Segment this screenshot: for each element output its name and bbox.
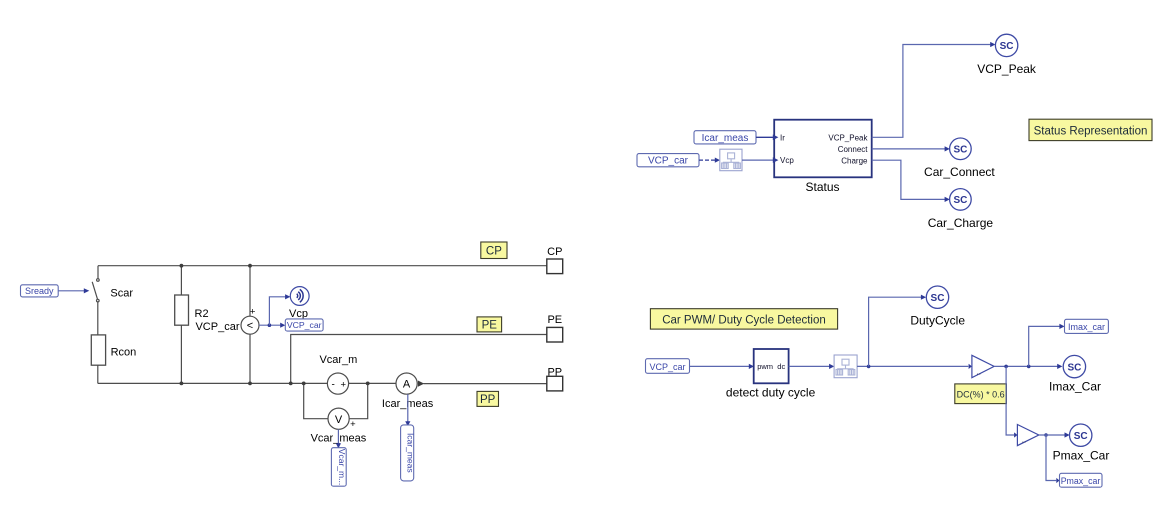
svg-text:Scar: Scar <box>110 288 133 300</box>
wire gain1 to Imax_Car scope <box>994 365 1059 367</box>
wire voltmeter loop <box>304 383 368 418</box>
converter block top <box>720 149 742 171</box>
node gain1 out a <box>1004 365 1008 369</box>
wire Sready arrow <box>58 290 84 292</box>
svg-text:SC: SC <box>931 293 945 304</box>
goto tag VCP_car small <box>285 319 323 331</box>
svg-text:Status Representation: Status Representation <box>1034 125 1148 137</box>
svg-text:..: .. <box>977 367 981 376</box>
wire A to goto tag <box>407 394 409 422</box>
wire PE branch <box>291 335 547 384</box>
node bottom VCPcar <box>248 382 252 386</box>
svg-text:VCP_car: VCP_car <box>195 321 239 333</box>
junction dots black <box>180 264 425 387</box>
wire up to Imax_car tag <box>1029 326 1061 366</box>
goto tag Pmax_car <box>1060 473 1103 487</box>
block detect duty cycle <box>754 349 789 383</box>
LEFT-CIRCUIT <box>91 266 546 430</box>
from tag Sready <box>21 285 59 297</box>
svg-text:+: + <box>341 379 347 390</box>
svg-text:Vcar_m: Vcar_m <box>319 354 357 366</box>
arrow after ammeter <box>418 381 424 387</box>
wire Charge out <box>872 160 947 199</box>
node Vloop left <box>302 382 306 386</box>
from tag Icar_meas <box>694 131 756 144</box>
svg-text:+: + <box>350 419 356 430</box>
wire V to goto tag <box>337 429 339 444</box>
voltmeter V <box>328 408 349 429</box>
wire switch drop <box>97 266 99 279</box>
svg-text:SC: SC <box>1067 362 1081 373</box>
wire Icar_meas to Status <box>756 136 773 138</box>
goto tag Vcar_m vertical <box>331 448 346 487</box>
wire Connect out <box>872 148 947 150</box>
svg-text:Status: Status <box>805 180 839 194</box>
wire Rcon to bottom bus <box>97 365 99 383</box>
wire VCP_Peak out <box>872 45 992 138</box>
gain 1 <box>969 364 972 369</box>
yellow annotation Status Representation <box>1029 119 1152 140</box>
converter block bottom <box>834 355 857 378</box>
wire R2 branch <box>180 266 182 384</box>
svg-text:VCP_car: VCP_car <box>649 362 685 372</box>
scope Imax_Car <box>1063 355 1085 377</box>
wire VCP_car to converter <box>699 159 716 161</box>
svg-text:Vcar_m...: Vcar_m... <box>337 449 347 485</box>
wire down to Pmax_car tag <box>1046 435 1056 481</box>
resistor R2 <box>175 295 189 325</box>
subsystem Status <box>774 120 872 178</box>
node PE <box>289 382 293 386</box>
wire up to Vcp scope <box>269 297 285 325</box>
svg-text:Charge: Charge <box>841 156 868 165</box>
port PE <box>547 327 563 342</box>
svg-text:VCP_car: VCP_car <box>287 320 322 330</box>
svg-text:Car_Charge: Car_Charge <box>928 216 994 230</box>
svg-text:<: < <box>247 320 253 332</box>
svg-text:Icar_meas: Icar_meas <box>702 133 749 144</box>
wire comparator to tag <box>259 324 282 326</box>
node top R2 <box>180 264 184 268</box>
source VCP_car (circle with <) <box>241 316 259 334</box>
wire up to DutyCycle <box>869 297 923 366</box>
svg-text:Pmax_Car: Pmax_Car <box>1053 448 1110 462</box>
svg-text:DutyCycle: DutyCycle <box>910 313 965 327</box>
yellow annotation Car PWM <box>650 309 837 329</box>
wire converter to Status <box>742 159 773 161</box>
node Vloop right <box>366 382 370 386</box>
svg-text:PP: PP <box>547 366 562 378</box>
svg-text:+: + <box>250 307 256 318</box>
wire detect to converter <box>789 365 831 367</box>
symbols text <box>247 307 411 430</box>
svg-text:Imax_Car: Imax_Car <box>1049 380 1101 394</box>
svg-text:Sready: Sready <box>25 286 54 296</box>
goto tag Imax_car <box>1065 319 1109 333</box>
svg-text:Ir: Ir <box>780 133 785 142</box>
svg-text:Imax_car: Imax_car <box>1068 322 1105 332</box>
BOTTOM-RIGHT PWM SECTION <box>646 286 1110 487</box>
svg-text:Connect: Connect <box>838 145 869 154</box>
svg-text:VCP_Peak: VCP_Peak <box>977 62 1037 76</box>
scope Pmax_Car <box>1070 424 1092 446</box>
svg-text:VCP_Peak: VCP_Peak <box>828 133 868 142</box>
wire VCP_car to detect <box>690 365 751 367</box>
svg-text:-: - <box>332 379 335 390</box>
ammeter A <box>396 373 417 394</box>
wire gain2 to Pmax_Car scope <box>1039 434 1066 436</box>
svg-text:Car_Connect: Car_Connect <box>924 165 995 179</box>
wire bottom bus <box>98 382 396 384</box>
svg-text:Rcon: Rcon <box>111 346 137 358</box>
yellow annotation DC <box>955 384 1007 404</box>
svg-text:CP: CP <box>547 246 562 258</box>
resistor Rcon <box>91 335 105 365</box>
svg-text:A: A <box>403 379 411 391</box>
node blue <box>268 323 272 327</box>
svg-text:Icar_meas: Icar_meas <box>405 433 415 473</box>
svg-text:pwm: pwm <box>757 362 773 371</box>
yellow annotation PP <box>477 391 499 406</box>
svg-text:SC: SC <box>953 145 967 156</box>
port CP <box>547 259 563 274</box>
svg-text:detect duty cycle: detect duty cycle <box>726 386 816 400</box>
svg-text:V: V <box>335 414 343 426</box>
svg-text:dc: dc <box>777 362 785 371</box>
yellow annotation PE <box>477 317 502 332</box>
svg-text:VCP_car: VCP_car <box>648 156 689 167</box>
svg-text:Vcp: Vcp <box>289 308 308 320</box>
svg-text:R2: R2 <box>195 308 209 320</box>
svg-text:PE: PE <box>482 320 498 332</box>
node top VCPcar <box>248 264 252 268</box>
BLUE-LEFT <box>21 285 416 486</box>
svg-text:PP: PP <box>480 394 496 406</box>
svg-text:Pmax_car: Pmax_car <box>1061 476 1101 486</box>
goto tag Icar_meas vertical <box>401 425 414 481</box>
svg-text:SC: SC <box>1074 431 1088 442</box>
node gain1 out b <box>1027 365 1031 369</box>
gain 2 <box>1017 425 1038 446</box>
svg-text:CP: CP <box>486 245 502 257</box>
scope Car_Connect <box>950 138 972 160</box>
scope DutyCycle <box>926 286 948 308</box>
svg-text:Vcp: Vcp <box>780 156 794 165</box>
from tag VCP_car <box>637 154 699 167</box>
wire PP line <box>424 383 547 385</box>
yellow annotation CP <box>481 242 507 259</box>
switch Scar <box>92 279 99 335</box>
svg-text:..: .. <box>1022 436 1026 445</box>
svg-text:Car PWM/ Duty Cycle Detection: Car PWM/ Duty Cycle Detection <box>662 314 826 326</box>
node bottom R2 <box>180 382 184 386</box>
wire down to gain2 <box>1006 366 1014 435</box>
svg-text:DC(%) * 0.6: DC(%) * 0.6 <box>957 389 1005 399</box>
port PP <box>547 376 563 391</box>
svg-text:SC: SC <box>1000 41 1014 52</box>
svg-text:SC: SC <box>953 195 967 206</box>
scope Car_Charge <box>950 189 972 211</box>
scope Vcp wireless <box>290 287 309 306</box>
node gain2 out <box>1044 433 1048 437</box>
wire VCP_car source branch <box>249 266 251 384</box>
from tag VCP_car bottom <box>646 359 690 374</box>
node branch DutyCycle <box>867 365 871 369</box>
wire top bus CP net <box>98 265 547 267</box>
scope VCP_Peak <box>995 34 1017 56</box>
TOP-RIGHT STATUS SECTION <box>637 34 1152 230</box>
svg-text:PE: PE <box>547 314 562 326</box>
voltage source Vcar_m <box>327 373 348 394</box>
black labels left circuit <box>110 246 562 444</box>
wire converter to gain with branch <box>857 365 968 367</box>
